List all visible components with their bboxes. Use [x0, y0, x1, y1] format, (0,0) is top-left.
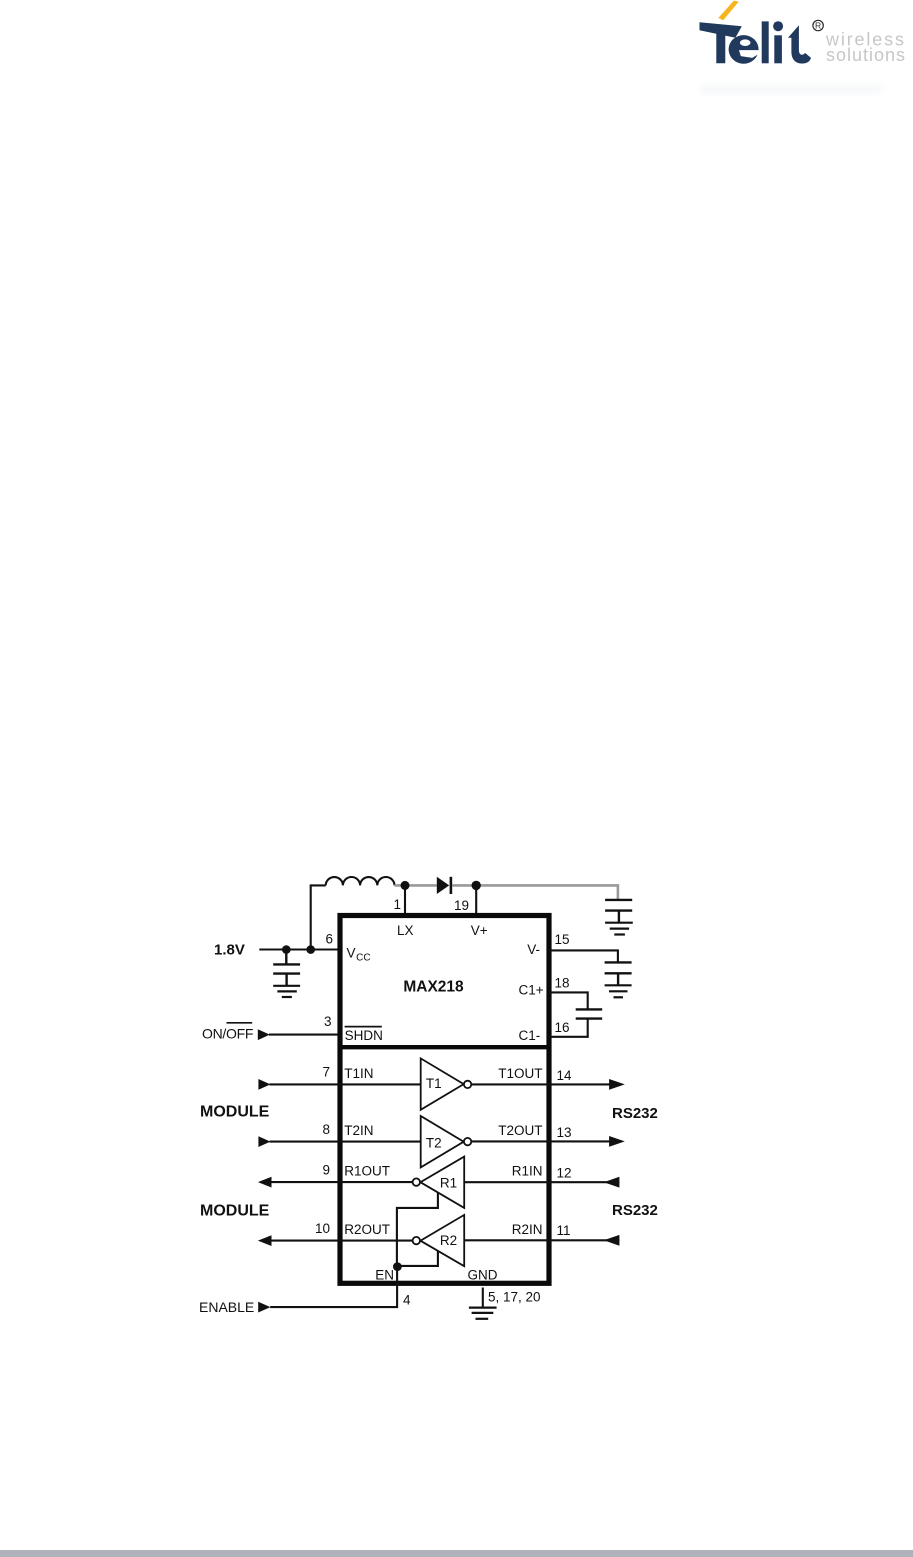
junction dot at V+ node — [472, 881, 481, 890]
wire ON/OFF to SHDN pin 3 — [269, 1034, 341, 1036]
arrowhead T2OUT output — [609, 1136, 625, 1147]
wire T2OUT row — [471, 1140, 609, 1142]
svg-text:V+: V+ — [471, 923, 488, 938]
svg-text:13: 13 — [557, 1125, 572, 1140]
buffer T1 — [421, 1058, 472, 1109]
pin name VCC — [347, 945, 371, 963]
arrowhead R1IN input — [604, 1177, 620, 1188]
arrowhead R2OUT output — [258, 1235, 272, 1246]
junction dot at inductor branch — [306, 945, 315, 954]
svg-text:MODULE: MODULE — [200, 1103, 270, 1120]
svg-text:R2IN: R2IN — [512, 1222, 543, 1237]
svg-text:RS232: RS232 — [612, 1202, 658, 1219]
arrowhead T1OUT output — [609, 1079, 625, 1090]
junction dot at LX node — [401, 881, 410, 890]
buffer R2 — [413, 1215, 465, 1266]
svg-text:R2: R2 — [440, 1233, 457, 1248]
wire inductor left leg — [311, 885, 326, 949]
capacitor C2 (charge pump) — [576, 1009, 603, 1018]
svg-text:4: 4 — [403, 1293, 411, 1308]
svg-text:16: 16 — [555, 1020, 570, 1035]
svg-text:15: 15 — [555, 932, 570, 947]
wire R2OUT row — [271, 1240, 413, 1242]
svg-text:12: 12 — [557, 1166, 572, 1181]
svg-text:T2: T2 — [426, 1136, 442, 1151]
wire V+ pin 19 stub — [475, 885, 477, 915]
wire T2IN row — [270, 1141, 421, 1143]
svg-text:CC: CC — [356, 953, 370, 964]
Telit yellow slash — [718, 1, 739, 21]
ground (V+ capacitor) — [605, 923, 633, 935]
junction dot at bypass capacitor — [282, 945, 291, 954]
Telit wordmark T stem — [716, 29, 725, 64]
svg-text:T1: T1 — [426, 1076, 442, 1091]
svg-text:SHDN: SHDN — [345, 1028, 383, 1043]
logo tagline wireless — [825, 29, 907, 65]
svg-text:MAX218: MAX218 — [403, 978, 464, 995]
capacitor C1 (VCC bypass) — [273, 950, 300, 986]
wire GND pin stub — [482, 1288, 484, 1308]
inductor L1 — [326, 877, 395, 885]
ground (VCC bypass capacitor) — [273, 986, 300, 997]
svg-text:T2OUT: T2OUT — [498, 1123, 542, 1138]
Telit wordmark i — [773, 21, 783, 63]
capacitor C3 (V- reservoir) — [605, 962, 632, 985]
wire T1IN row — [270, 1083, 421, 1085]
svg-text:EN: EN — [375, 1267, 394, 1282]
wire T1OUT row — [471, 1083, 609, 1085]
svg-text:9: 9 — [322, 1163, 330, 1178]
arrowhead R1OUT output — [258, 1177, 272, 1188]
svg-text:GND: GND — [468, 1267, 498, 1282]
svg-text:MODULE: MODULE — [200, 1202, 270, 1219]
wire V- pin 15 to capacitor — [549, 950, 618, 962]
svg-text:R1: R1 — [440, 1175, 457, 1190]
svg-text:T1OUT: T1OUT — [498, 1066, 542, 1081]
svg-text:6: 6 — [325, 932, 333, 947]
wire C1+ pin 18 to flying capacitor — [549, 992, 588, 1009]
svg-text:T1IN: T1IN — [344, 1066, 373, 1081]
svg-text:19: 19 — [454, 898, 469, 913]
svg-text:RS232: RS232 — [612, 1105, 658, 1122]
svg-text:1: 1 — [393, 897, 401, 912]
Telit wordmark t — [788, 25, 811, 63]
svg-text:LX: LX — [397, 923, 414, 938]
arrowhead T2IN input — [258, 1136, 270, 1147]
svg-text:ON/OFF: ON/OFF — [202, 1026, 253, 1042]
Telit wordmark l — [762, 21, 769, 63]
svg-text:18: 18 — [555, 976, 570, 991]
svg-text:T2IN: T2IN — [344, 1123, 373, 1138]
node ON/OFF label — [202, 1023, 253, 1042]
wire R1IN row — [464, 1181, 619, 1183]
svg-text:R1IN: R1IN — [512, 1164, 543, 1179]
wire R1OUT row — [271, 1181, 413, 1183]
wire inductor to diode (gray) — [395, 884, 437, 887]
IC internal divider line — [338, 1045, 552, 1049]
arrowhead T1IN input — [258, 1079, 270, 1090]
svg-text:5, 17, 20: 5, 17, 20 — [488, 1290, 541, 1305]
svg-text:C1-: C1- — [519, 1028, 541, 1043]
svg-text:R: R — [815, 21, 821, 31]
svg-text:8: 8 — [322, 1122, 330, 1137]
buffer T2 — [421, 1116, 472, 1167]
registered trademark symbol — [813, 20, 823, 30]
arrowhead R2IN input — [604, 1235, 620, 1246]
wire LX pin 1 stub — [404, 885, 406, 915]
wire R2IN row — [464, 1239, 619, 1241]
wire 1.8V to VCC pin 6 — [259, 948, 341, 950]
wire diode to V+ and boost capacitor (gray) — [452, 885, 618, 899]
arrowhead ON/OFF input — [258, 1029, 270, 1040]
svg-text:V: V — [347, 945, 356, 960]
diode D1 — [437, 877, 451, 894]
svg-text:solutions: solutions — [826, 45, 907, 65]
Telit wordmark e — [729, 35, 760, 64]
wire C1- pin 16 to flying capacitor — [549, 1019, 588, 1037]
Telit wordmark T bar — [700, 22, 742, 38]
arrowhead ENABLE input — [258, 1302, 270, 1313]
svg-text:1.8V: 1.8V — [214, 941, 245, 958]
svg-text:V-: V- — [527, 942, 540, 957]
svg-text:10: 10 — [315, 1221, 330, 1236]
svg-text:C1+: C1+ — [519, 983, 544, 998]
svg-text:ENABLE: ENABLE — [199, 1299, 254, 1315]
svg-text:R2OUT: R2OUT — [344, 1222, 390, 1237]
wire R2 enable stub — [397, 1251, 438, 1266]
ground (V- capacitor) — [605, 985, 632, 997]
wire EN pin 4 to ENABLE — [270, 1267, 397, 1308]
svg-text:R1OUT: R1OUT — [344, 1164, 390, 1179]
ground (GND pins) — [469, 1308, 497, 1319]
buffer R1 — [413, 1157, 465, 1208]
IC U1 MAX218 body — [340, 916, 549, 1284]
faint page bleed-through under logo — [700, 85, 882, 94]
junction dot at EN node — [393, 1262, 402, 1271]
svg-text:3: 3 — [324, 1014, 332, 1029]
svg-text:7: 7 — [322, 1065, 330, 1080]
svg-text:14: 14 — [557, 1068, 573, 1083]
footer bar — [0, 1550, 913, 1557]
wire R1 enable stub — [397, 1193, 438, 1267]
capacitor C4 (V+ reservoir) — [605, 900, 632, 923]
svg-text:11: 11 — [557, 1223, 571, 1238]
pin name SHDN with overline — [345, 1027, 383, 1043]
